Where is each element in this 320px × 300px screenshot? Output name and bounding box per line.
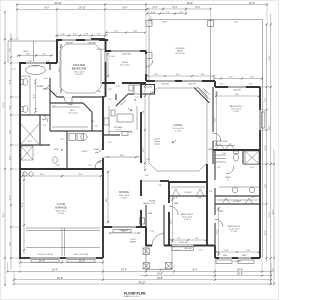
garage bay divider — [61, 228, 63, 256]
wall: hall east jog — [214, 246, 216, 259]
water heater — [81, 134, 87, 140]
door opening hall — [214, 180, 216, 188]
svg-text:35'-8": 35'-8" — [157, 277, 163, 280]
wall: closet bottom left — [20, 144, 50, 146]
svg-text:6'-0": 6'-0" — [198, 198, 202, 200]
interior dim: dining v — [110, 232, 139, 234]
svg-text:2'-6": 2'-6" — [217, 167, 221, 169]
bed4 closet bifold on south wall — [216, 144, 234, 149]
bath2 shower — [245, 151, 259, 164]
wall: wic west v50 — [49, 90, 51, 131]
svg-text:46'-0": 46'-0" — [187, 2, 193, 5]
bed4 interior dim — [216, 92, 218, 145]
wall: master bedroom north — [56, 39, 108, 41]
svg-text:3'-0": 3'-0" — [61, 34, 65, 36]
svg-text:4'-4": 4'-4" — [145, 175, 149, 177]
wall: foyer west — [145, 205, 147, 246]
kitchen pantry diagonal — [116, 94, 128, 106]
svg-text:30'-0": 30'-0" — [3, 212, 5, 217]
art niche — [140, 218, 145, 224]
powder toilet — [53, 157, 58, 163]
interior dim: garage top — [22, 175, 101, 177]
wall: garage south west stub — [19, 257, 30, 259]
garage interior lines — [26, 227, 100, 229]
svg-text:8'-0": 8'-0" — [123, 7, 128, 10]
svg-text:3050 SH: 3050 SH — [96, 49, 104, 51]
svg-text:W.C.: W.C. — [91, 121, 96, 123]
svg-text:CLOSET: CLOSET — [184, 192, 192, 194]
svg-text:2'-2": 2'-2" — [135, 97, 139, 99]
interior dim: bed2 — [170, 239, 206, 241]
covered patio top edge — [149, 19, 263, 21]
wet bar niche at living NW — [142, 85, 155, 95]
door opening bed2 — [168, 203, 170, 212]
svg-text:22'-4": 22'-4" — [22, 202, 24, 207]
shower wall — [242, 151, 244, 164]
bottom dimension line tier 5 — [14, 283, 271, 285]
svg-text:2'-10": 2'-10" — [133, 31, 138, 33]
svg-text:5'-10": 5'-10" — [246, 250, 251, 252]
svg-text:5'-6": 5'-6" — [195, 238, 199, 240]
svg-text:9' CLG: 9' CLG — [175, 131, 181, 133]
svg-text:5'-8": 5'-8" — [56, 165, 60, 167]
wall: front wall (foyer + bed2 south) — [146, 245, 215, 247]
svg-text:14'-8": 14'-8" — [157, 273, 163, 276]
svg-text:6'-0": 6'-0" — [174, 198, 178, 200]
misc leader dots — [134, 99, 135, 100]
garage door track line — [26, 247, 100, 249]
wall: garage south pier 2 — [60, 257, 66, 259]
svg-text:3050 SH: 3050 SH — [184, 248, 192, 250]
toilet 1 — [21, 80, 24, 85]
interior dim: bed4 top — [216, 95, 259, 97]
covered patio right edge — [262, 20, 264, 259]
svg-text:10'-0 x 11'-2: 10'-0 x 11'-2 — [120, 65, 130, 67]
svg-text:10'-2": 10'-2" — [143, 147, 145, 152]
window: master north 2 — [85, 39, 99, 41]
wall: closet divider v40 — [39, 115, 41, 145]
wall: wic chamfer — [83, 103, 92, 112]
svg-text:11'-4": 11'-4" — [265, 145, 267, 150]
right dimension line tier 3 — [273, 150, 275, 284]
kitchen-dining arch line — [103, 156, 141, 158]
bottom extension line x271 — [270, 262, 272, 285]
svg-text:8'-6": 8'-6" — [9, 242, 11, 246]
window: nook east — [145, 54, 147, 74]
living interior dim — [144, 86, 146, 170]
svg-text:9' CLG: 9' CLG — [121, 198, 127, 200]
svg-text:5'-0": 5'-0" — [175, 250, 179, 252]
svg-text:9' CLG: 9' CLG — [149, 203, 155, 205]
svg-text:22'-6": 22'-6" — [3, 102, 5, 107]
bath door arc — [43, 82, 50, 89]
right dimension line tier 1 — [270, 13, 272, 284]
bath2 door arc — [226, 166, 234, 174]
wall: wic east — [91, 112, 93, 131]
bath2 toilet — [234, 151, 239, 153]
fireplace corner diagonals — [194, 88, 210, 104]
svg-text:3050: 3050 — [242, 255, 246, 257]
interior dim: bed3 — [216, 251, 259, 253]
wic door arc — [41, 115, 48, 122]
bath2 sink 1 — [232, 187, 238, 193]
door opening bed4 — [212, 132, 214, 141]
wall: master north short — [91, 38, 105, 40]
interior dim: bath top — [18, 55, 53, 57]
extension line x163 — [162, 7, 164, 14]
svg-text:14'-4": 14'-4" — [120, 155, 125, 157]
svg-text:CLOSET: CLOSET — [220, 141, 228, 143]
svg-text:3'-0": 3'-0" — [199, 250, 203, 252]
svg-text:4'-0": 4'-0" — [250, 167, 254, 169]
closet rod bed3 — [217, 199, 258, 201]
svg-text:2668: 2668 — [208, 149, 212, 151]
svg-text:DINING: DINING — [119, 190, 129, 194]
svg-text:32'-4": 32'-4" — [52, 269, 58, 272]
svg-text:2'-10": 2'-10" — [84, 34, 89, 36]
vanity line — [20, 75, 30, 77]
svg-text:6'-8": 6'-8" — [116, 86, 120, 88]
svg-text:3050 SH: 3050 SH — [233, 261, 241, 263]
wall: living north — [146, 80, 215, 82]
garage door 1 — [30, 256, 60, 258]
wall: hall east — [214, 150, 216, 246]
svg-text:4'-2": 4'-2" — [46, 61, 50, 63]
bottom extension line x20 — [19, 259, 21, 268]
covered patio mid post line — [210, 20, 212, 82]
svg-text:8'-4": 8'-4" — [173, 6, 178, 9]
door arc: bed2 — [169, 206, 178, 215]
wall: bed3 south — [215, 257, 260, 259]
svg-text:SCALE: 1/4" = 1'-0": SCALE: 1/4" = 1'-0" — [124, 295, 140, 298]
window: bed3 south 1 — [219, 257, 232, 259]
window: bed3 south 2 — [238, 257, 251, 259]
svg-text:3'-4": 3'-4" — [129, 132, 133, 134]
wall: master south — [57, 96, 105, 98]
svg-text:#2: #2 — [227, 179, 229, 181]
linen shelves left of bath — [214, 154, 226, 156]
svg-text:11'-0": 11'-0" — [235, 94, 240, 96]
closet bifold bed2 — [172, 189, 204, 196]
extension line x57 — [56, 7, 58, 40]
bottom extension line x174 — [173, 265, 175, 268]
wall: center spine lower — [102, 96, 104, 169]
svg-text:15'-8": 15'-8" — [40, 174, 45, 176]
porch outline — [146, 246, 172, 270]
wall: powder divider v67 — [66, 131, 68, 169]
wall: wic north — [50, 102, 83, 104]
svg-text:2868: 2868 — [97, 162, 101, 164]
svg-text:LIVING: LIVING — [173, 123, 182, 127]
svg-text:3'-0": 3'-0" — [150, 92, 154, 94]
svg-text:3'-10": 3'-10" — [179, 12, 184, 14]
svg-text:20'-0": 20'-0" — [269, 55, 271, 60]
master tray ceiling octagon — [60, 44, 101, 93]
svg-text:8'-0": 8'-0" — [154, 74, 158, 76]
dishwasher — [122, 132, 128, 136]
svg-text:29'-8": 29'-8" — [57, 277, 63, 280]
svg-text:4'-2": 4'-2" — [42, 54, 46, 56]
svg-text:9' CLG: 9' CLG — [231, 231, 237, 233]
svg-text:8'-4": 8'-4" — [193, 269, 198, 272]
window: bath north over tub — [26, 62, 46, 64]
svg-text:4'-6": 4'-6" — [54, 93, 58, 95]
svg-text:2-2668: 2-2668 — [93, 149, 99, 151]
svg-text:5'-0": 5'-0" — [150, 231, 154, 233]
svg-text:FLOOR PLAN: FLOOR PLAN — [124, 291, 146, 295]
porch post 3 — [166, 263, 172, 269]
svg-text:5'-2": 5'-2" — [108, 99, 112, 101]
patio post NW — [146, 20, 152, 26]
svg-text:4'-0": 4'-0" — [153, 6, 158, 9]
svg-text:8'-4": 8'-4" — [196, 6, 201, 9]
garage interior dim — [23, 172, 25, 254]
bath interior dim — [35, 80, 37, 112]
wall: garage south pier 3 — [96, 257, 103, 259]
svg-text:28'-8": 28'-8" — [163, 22, 168, 24]
wall: nook east — [145, 51, 147, 81]
svg-text:2'-8": 2'-8" — [158, 185, 162, 187]
svg-text:15'-8": 15'-8" — [237, 269, 243, 272]
svg-text:5'-4": 5'-4" — [251, 197, 255, 199]
wall: master west step — [56, 40, 58, 63]
svg-text:6'-2": 6'-2" — [43, 125, 47, 127]
svg-text:6'-0": 6'-0" — [9, 105, 11, 109]
svg-text:2'-0": 2'-0" — [12, 69, 16, 71]
svg-text:4'-0": 4'-0" — [229, 77, 233, 79]
garage door 2 — [66, 256, 96, 258]
rear patio slab line horizontal — [8, 40, 57, 42]
bottom extension line x146 — [145, 268, 147, 272]
wall: nook north — [105, 50, 146, 52]
svg-text:8'-0": 8'-0" — [9, 156, 11, 160]
step lines living SW — [154, 139, 160, 144]
svg-text:UTILITY: UTILITY — [81, 151, 89, 153]
svg-text:5'-0": 5'-0" — [146, 159, 150, 161]
svg-text:ENTRY: ENTRY — [130, 242, 137, 244]
svg-text:3'-0": 3'-0" — [209, 191, 213, 193]
window: bed2 south — [172, 245, 194, 247]
wall: master bath north — [19, 62, 57, 64]
bath2 sink 2 — [249, 187, 255, 193]
svg-text:18'-2": 18'-2" — [272, 209, 274, 214]
bottom dimension line tier 3 — [140, 275, 271, 277]
window: bed4 east — [259, 110, 261, 130]
top dimension line tier 1 full — [17, 4, 267, 6]
svg-text:3050 SH: 3050 SH — [233, 90, 241, 92]
svg-text:11'-0": 11'-0" — [215, 117, 217, 122]
svg-text:3050 SH: 3050 SH — [188, 84, 196, 86]
svg-text:3050 SH: 3050 SH — [161, 84, 169, 86]
door arc: utility — [95, 145, 103, 153]
bottom extension line x14 — [13, 272, 15, 285]
wall: bath2 south — [215, 195, 260, 197]
bed3 interior dim — [218, 208, 220, 255]
svg-text:6'-6 x 12'-0: 6'-6 x 12'-0 — [68, 113, 77, 115]
svg-text:7'-8": 7'-8" — [9, 48, 11, 52]
extension line x105 — [104, 3, 106, 39]
svg-text:PWD: PWD — [54, 149, 59, 151]
wall: bed2 closet north — [169, 181, 207, 183]
extension line x267t — [266, 3, 268, 25]
wall: west exterior — [19, 63, 21, 259]
rear patio slab line vertical — [7, 41, 9, 63]
svg-text:BEDROOM: BEDROOM — [72, 67, 87, 71]
svg-text:32'-10": 32'-10" — [54, 2, 62, 5]
svg-text:8'x8' O.H. DOOR: 8'x8' O.H. DOOR — [74, 254, 89, 256]
svg-text:14'-6": 14'-6" — [59, 67, 61, 72]
svg-text:5'-6": 5'-6" — [177, 238, 181, 240]
hanging rods wic — [52, 106, 80, 108]
svg-text:9'-8": 9'-8" — [9, 130, 11, 134]
extension line x186 — [185, 7, 187, 14]
wall: wic/utility divide — [50, 130, 103, 132]
svg-text:9' CLG: 9' CLG — [184, 219, 190, 221]
svg-text:11'-6": 11'-6" — [171, 219, 173, 224]
extension line x149 — [148, 7, 150, 19]
svg-text:2668: 2668 — [148, 213, 152, 215]
window: dining south — [112, 226, 136, 228]
wall: bed2 east — [206, 164, 208, 245]
opening in spine at gallery — [140, 163, 142, 180]
svg-text:2'-4": 2'-4" — [60, 139, 64, 141]
front door opening — [152, 244, 164, 246]
svg-text:7'-2": 7'-2" — [88, 165, 92, 167]
closet bifold bed3 — [222, 198, 253, 204]
svg-text:5'-0": 5'-0" — [222, 153, 226, 155]
range — [104, 118, 109, 125]
closet rod bed2 — [171, 186, 205, 188]
wall: garage east — [102, 169, 104, 258]
svg-text:M.BATH: M.BATH — [36, 85, 44, 88]
window: nook north — [111, 50, 140, 52]
svg-text:11'-0": 11'-0" — [217, 229, 219, 234]
svg-text:8'-0": 8'-0" — [201, 74, 205, 76]
dining interior dim — [107, 172, 109, 222]
bottom extension line x215 — [214, 259, 216, 280]
wall: bed2 closet south — [169, 195, 207, 197]
svg-text:9' CLG: 9' CLG — [58, 213, 64, 215]
interior dim: living top — [147, 75, 214, 77]
wall: foyer east — [163, 205, 165, 246]
bath2 vanity — [219, 186, 260, 188]
bed2 interior dim — [172, 198, 174, 242]
svg-text:2-3050 SH: 2-3050 SH — [121, 54, 131, 56]
bottom dimension line tier 1 — [20, 262, 103, 264]
wall: bath south — [20, 114, 50, 116]
bath fixtures: garden tub — [26, 66, 46, 75]
left extension stubs — [11, 38, 19, 40]
svg-text:6'-4": 6'-4" — [265, 184, 267, 188]
door arc: master entry — [64, 97, 72, 105]
svg-text:5'-10": 5'-10" — [224, 250, 229, 252]
bottom extension line x62 — [61, 259, 63, 263]
svg-text:4'-6": 4'-6" — [34, 94, 36, 98]
svg-text:6'-0": 6'-0" — [160, 269, 165, 272]
svg-text:4'-10": 4'-10" — [151, 12, 156, 14]
toilet 2 — [21, 107, 24, 112]
kitchen island — [117, 114, 133, 122]
patio post SW — [146, 53, 152, 59]
extension line x210.5 — [210, 7, 212, 20]
svg-text:2'-6": 2'-6" — [108, 89, 112, 91]
fridge — [134, 85, 141, 94]
window: living north 1 — [155, 80, 175, 82]
svg-text:11'-8": 11'-8" — [265, 230, 267, 235]
porch post 1 — [143, 248, 149, 254]
kitchen counter south inner — [109, 131, 132, 133]
svg-text:78'-10": 78'-10" — [138, 281, 146, 284]
patio post NE — [208, 20, 214, 26]
svg-text:7'-6": 7'-6" — [265, 98, 267, 102]
svg-text:3'-8": 3'-8" — [28, 141, 32, 143]
bottom dimension line tier 4 — [14, 279, 271, 281]
door arc: bed3 hall — [215, 219, 223, 227]
svg-text:PATIO: PATIO — [23, 50, 29, 53]
svg-text:4'-0": 4'-0" — [250, 77, 254, 79]
wall: bath/bedroom divider — [49, 63, 51, 90]
wall oven — [129, 85, 133, 91]
svg-text:6'-10": 6'-10" — [26, 54, 31, 56]
wall: dining east jog — [145, 227, 147, 246]
kitchen counter west — [108, 106, 110, 135]
wall: dining south — [102, 226, 146, 228]
svg-text:26'-8": 26'-8" — [269, 125, 271, 130]
svg-text:3050 SH: 3050 SH — [65, 42, 73, 44]
bottom extension line x7.5 — [7, 262, 9, 272]
extension line x146 — [145, 3, 147, 51]
svg-text:5'-6": 5'-6" — [94, 126, 98, 128]
wall: master southwest chamfer — [50, 90, 57, 97]
svg-text:17'-4": 17'-4" — [234, 22, 239, 24]
svg-text:31'-4": 31'-4" — [269, 212, 271, 217]
door arc: garage entry — [95, 160, 103, 168]
bottom extension line x103 — [102, 259, 104, 280]
svg-text:2-3050 SH: 2-3050 SH — [119, 230, 129, 232]
svg-text:4040 FX: 4040 FX — [32, 65, 40, 67]
small leader arrows — [128, 108, 132, 111]
garage corner water softener — [23, 172, 27, 176]
porch post 2 — [143, 263, 149, 269]
master interior dim — [60, 45, 62, 92]
bottom dimension line tier 2 — [8, 271, 272, 273]
interior dim: master top — [55, 35, 108, 37]
svg-text:2668: 2668 — [219, 211, 223, 213]
svg-text:14'-4": 14'-4" — [121, 269, 127, 272]
wall: hall west — [206, 164, 208, 246]
interior dim: nook top — [106, 32, 145, 34]
extension line x151 — [150, 16, 152, 24]
shower X — [21, 146, 33, 160]
svg-text:13'-10": 13'-10" — [78, 7, 86, 10]
washer dryer — [69, 134, 76, 141]
svg-text:3'-0": 3'-0" — [97, 34, 101, 36]
right dimension line tier 2 — [266, 25, 268, 263]
dim above bed4 wall — [214, 78, 262, 80]
door arc: bed4 — [213, 133, 221, 141]
wall: bed4/closet north — [215, 86, 260, 88]
wall: bed4 west — [212, 87, 214, 164]
wall: bed3 closet south — [215, 203, 260, 205]
kitchen counter east — [136, 106, 138, 130]
svg-text:9'-4": 9'-4" — [143, 110, 145, 114]
svg-text:9' CLG: 9' CLG — [233, 111, 239, 113]
top dimension line tier 3 right — [147, 13, 186, 15]
door arc: nook patio — [146, 60, 153, 67]
window sill marks (exterior) — [216, 260, 232, 263]
svg-text:4'-0": 4'-0" — [176, 74, 180, 76]
svg-text:11'-0": 11'-0" — [249, 2, 255, 5]
